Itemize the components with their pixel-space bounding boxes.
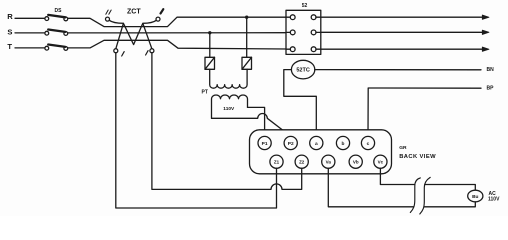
wire R tap to fuse F2 [246, 17, 248, 57]
svg-text:a: a [315, 142, 318, 147]
svg-text:Vc: Vc [378, 159, 384, 164]
ZCT winding [109, 20, 156, 49]
transformer PT primary winding [210, 69, 247, 88]
wire PT secondary to terminal P1 [248, 107, 265, 136]
svg-text:52: 52 [302, 3, 308, 9]
ZCT terminal lt tick label [161, 9, 164, 13]
wire phase S [15, 31, 483, 34]
fuse F2 [242, 57, 252, 69]
svg-text:P2: P2 [288, 141, 294, 147]
wire BP to terminal c [368, 88, 481, 137]
svg-text:R: R [7, 12, 13, 21]
terminal Z2 [295, 155, 308, 168]
breaker 52 contact R right [311, 15, 316, 20]
terminal Va [322, 155, 335, 168]
svg-text:BACK VIEW: BACK VIEW [399, 154, 436, 160]
arrow phase S [482, 30, 489, 34]
svg-text:Z2: Z2 [299, 159, 305, 164]
node on S line PT tap [208, 31, 211, 34]
wire S tap to fuse F1 [209, 33, 211, 58]
breaker 52 contact T left [290, 47, 295, 52]
terminal Vb [349, 155, 362, 168]
wire terminal Vc to AC source [380, 168, 475, 190]
svg-text:DS: DS [55, 8, 63, 14]
transformer PT secondary winding [212, 95, 248, 118]
terminal a [310, 136, 323, 149]
svg-text:52TC: 52TC [296, 68, 309, 74]
wire ZCT k to terminal Z1 [116, 53, 277, 208]
wire phase R [15, 17, 483, 26]
ZCT terminal l [150, 49, 154, 53]
wire 52TC to BN [315, 69, 481, 71]
svg-text:Vb: Vb [353, 159, 359, 164]
svg-text:110V: 110V [223, 106, 235, 112]
svg-text:S: S [7, 27, 12, 36]
svg-text:BN: BN [487, 67, 495, 73]
svg-text:b: b [342, 141, 345, 147]
buzzer Bu AC source [468, 190, 483, 202]
disconnect switch DS pole R [45, 15, 68, 21]
svg-text:Z1: Z1 [274, 159, 280, 164]
wire ZCT l to terminal Z2 with hop [152, 53, 302, 190]
svg-text:Va: Va [326, 159, 332, 164]
svg-text:GR: GR [399, 145, 407, 151]
wire phase T [15, 40, 483, 49]
svg-text:T: T [7, 42, 12, 51]
terminal Z1 [270, 155, 283, 168]
terminal P2 [284, 136, 297, 149]
terminal b [336, 136, 349, 149]
svg-text:PT: PT [202, 90, 208, 96]
node on R line PT tap [245, 16, 248, 19]
svg-text:c: c [367, 142, 370, 147]
breaker 52 contact stubs [286, 17, 321, 49]
relay GR outline [250, 130, 392, 174]
svg-text:ZCT: ZCT [127, 9, 141, 16]
svg-text:P1: P1 [262, 141, 268, 147]
breaker 52 contact S left [290, 30, 295, 35]
arrow phase T [482, 47, 489, 51]
ZCT terminal kt tick label [106, 10, 111, 14]
svg-text:110V: 110V [488, 197, 500, 203]
terminal P1 [258, 136, 271, 149]
disconnect switch DS pole T [45, 45, 68, 51]
terminal c [361, 136, 374, 149]
fuse F1 [205, 57, 215, 69]
terminal Vc [374, 155, 387, 168]
ZCT terminal lt [156, 17, 160, 21]
ZCT terminal l tick label [146, 51, 149, 55]
arrow phase R [482, 15, 489, 19]
ZCT terminal kt [106, 17, 110, 21]
wire PT secondary to terminal P2 with hop [212, 114, 291, 137]
svg-text:BP: BP [487, 86, 495, 92]
breaker 52 contact S right [311, 30, 316, 35]
breaker 52 contact R left [290, 15, 295, 20]
ZCT terminal k tick label [122, 52, 125, 56]
cable break [410, 177, 430, 214]
disconnect switch DS pole S [45, 30, 68, 36]
breaker 52 contact T right [311, 47, 316, 52]
svg-text:Bu: Bu [472, 194, 478, 200]
breaker 52 box [286, 10, 321, 54]
wire terminal Va to AC source [328, 168, 475, 207]
ZCT terminal k [114, 49, 118, 53]
wire 52TC to terminal a [284, 70, 317, 137]
trip coil 52TC [291, 60, 314, 79]
